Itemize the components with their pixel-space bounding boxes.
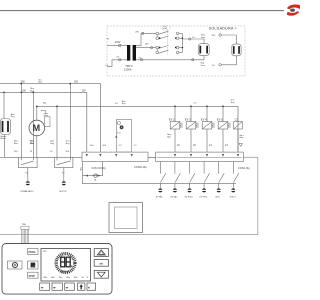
wire K1 to pump bbox=[27, 168, 29, 181]
svg-text:0V: 0V bbox=[139, 57, 142, 59]
wire K1 pin A bbox=[14, 84, 21, 158]
svg-text:2mm: 2mm bbox=[201, 65, 206, 67]
svg-text:Blan: Blan bbox=[30, 143, 34, 145]
node W3/motor bbox=[36, 106, 38, 108]
svg-text:M: M bbox=[33, 123, 41, 133]
solenoid EV2 bbox=[167, 106, 182, 152]
button warning bbox=[94, 249, 108, 257]
motor M1 bbox=[29, 120, 45, 136]
switch/ground column EV SOLD bbox=[185, 162, 195, 199]
node W2/K1a bbox=[20, 92, 22, 94]
svg-text:100: 100 bbox=[90, 145, 94, 147]
contactor left link wires bbox=[156, 35, 158, 51]
svg-text:70: 70 bbox=[50, 151, 53, 153]
svg-text:70: 70 bbox=[43, 102, 46, 105]
svg-text:2.0: 2.0 bbox=[193, 102, 197, 104]
wire W1 net 200 bbox=[0, 78, 100, 152]
node W3/K2a bbox=[56, 106, 58, 108]
solenoid EV5 bbox=[217, 106, 230, 152]
logo (red swoosh, cropped at right edge) bbox=[287, 4, 300, 15]
svg-text:◂▸: ◂▸ bbox=[41, 286, 45, 290]
bottom button 4 bbox=[78, 283, 85, 290]
svg-text:200: 200 bbox=[65, 151, 69, 153]
wire K1 pin B bbox=[30, 92, 34, 157]
svg-text:◂▸: ◂▸ bbox=[53, 286, 57, 290]
svg-text:P-0: P-0 bbox=[117, 132, 121, 134]
strip2 pin arrows bbox=[174, 154, 239, 157]
solenoid EV3 bbox=[185, 106, 198, 152]
svg-text:SIOC: SIOC bbox=[215, 197, 220, 199]
dashed enclosure (power section) bbox=[107, 26, 245, 76]
svg-text:Neg: Neg bbox=[38, 82, 41, 84]
svg-text:EV VAC: EV VAC bbox=[171, 196, 178, 199]
svg-text:14V: 14V bbox=[145, 43, 149, 45]
fuse feeder wires bbox=[81, 162, 83, 176]
node W3/EV2 bbox=[174, 106, 176, 108]
bottom button 2 bbox=[52, 283, 63, 290]
svg-text:Neg: Neg bbox=[50, 143, 53, 145]
svg-text:Blan: Blan bbox=[240, 137, 244, 139]
svg-text:Blan: Blan bbox=[14, 143, 18, 145]
svg-text:SOLD I: SOLD I bbox=[230, 197, 237, 199]
svg-text:100: 100 bbox=[14, 151, 18, 153]
svg-text:MOTOR: MOTOR bbox=[59, 191, 67, 193]
svg-text:PROG: PROG bbox=[29, 251, 36, 254]
common bus (bottom) bbox=[0, 156, 243, 158]
primary wire 0V bbox=[105, 57, 127, 68]
svg-text:CONN 14p: CONN 14p bbox=[134, 165, 147, 169]
svg-text:KT PROL: KT PROL bbox=[200, 197, 208, 199]
svg-text:BY PAC: BY PAC bbox=[156, 196, 163, 199]
svg-text:▸|: ▸| bbox=[88, 286, 91, 290]
ribbon wire to panel bbox=[243, 157, 257, 234]
svg-text:Blan: Blan bbox=[167, 136, 171, 138]
bus through strips bbox=[148, 156, 156, 158]
relay contact K2 bbox=[55, 157, 73, 167]
button OK bbox=[94, 260, 108, 267]
svg-text:Neg: Neg bbox=[66, 143, 69, 145]
svg-text:EV 5: EV 5 bbox=[217, 118, 223, 122]
panel bus line bbox=[0, 234, 258, 236]
motor run capacitor bbox=[41, 111, 50, 127]
svg-text:Neg: Neg bbox=[231, 102, 234, 104]
switch common bus bbox=[82, 176, 236, 184]
wire W3 net 70 bbox=[37, 99, 238, 153]
svg-text:V5: V5 bbox=[107, 39, 110, 41]
wire K2 pin A bbox=[50, 106, 57, 157]
relay contact K1 bbox=[18, 157, 37, 167]
svg-text:200: 200 bbox=[102, 145, 106, 147]
svg-text:STOP: STOP bbox=[29, 275, 36, 278]
svg-text:13: 13 bbox=[225, 144, 228, 147]
svg-text:14: 14 bbox=[209, 144, 212, 147]
switch/ground column EV VAC bbox=[171, 162, 181, 199]
wire module top bbox=[3, 92, 5, 118]
svg-text:16: 16 bbox=[177, 144, 180, 147]
vacuum pump symbol bbox=[21, 181, 35, 193]
svg-text:2.0: 2.0 bbox=[115, 103, 119, 105]
node W1/K2 bbox=[69, 83, 71, 85]
svg-text:EV 3: EV 3 bbox=[185, 118, 191, 122]
svg-text:Neg: Neg bbox=[11, 116, 14, 118]
svg-text:ok: ok bbox=[99, 262, 103, 266]
svg-text:EV 4: EV 4 bbox=[201, 118, 207, 122]
rectifier module D1 bbox=[198, 35, 209, 67]
label C3 (contactor title) bbox=[161, 25, 171, 30]
svg-text:C3: C3 bbox=[163, 26, 167, 30]
svg-text:BOMBA VACIO: BOMBA VACIO bbox=[21, 190, 35, 193]
button down bbox=[94, 270, 108, 278]
contactor output bus bbox=[179, 33, 183, 52]
bottom button 5 bbox=[87, 283, 96, 290]
svg-text:0V: 0V bbox=[117, 57, 120, 59]
contactor coil C3 bbox=[234, 118, 244, 153]
svg-text:2.1: 2.1 bbox=[134, 145, 138, 147]
wire W2 net 100 bbox=[0, 87, 87, 152]
wire motor top bbox=[36, 106, 38, 120]
svg-text:79: 79 bbox=[30, 151, 33, 153]
svg-text:15: 15 bbox=[193, 144, 196, 147]
button PROG bbox=[28, 248, 38, 254]
node W2/K1b bbox=[32, 92, 34, 94]
svg-text:C3: C3 bbox=[235, 118, 239, 122]
capacitor module X1 bbox=[0, 113, 15, 140]
button STOP bbox=[28, 272, 38, 278]
fuse F1 0.8(3A) bbox=[85, 167, 105, 181]
strip1 pin arrows bbox=[86, 154, 133, 157]
secondary tap 14V bbox=[136, 43, 156, 48]
seven segment digit 1 bbox=[61, 257, 65, 267]
decimal point bbox=[71, 266, 72, 267]
wire bus to rectifier bbox=[182, 37, 204, 40]
knob button bbox=[8, 261, 22, 269]
svg-text:◂▸: ◂▸ bbox=[65, 286, 69, 290]
svg-text:2.2: 2.2 bbox=[119, 145, 123, 147]
svg-text:29V: 29V bbox=[135, 32, 139, 34]
header rule bbox=[0, 10, 284, 12]
svg-text:230V: 230V bbox=[115, 41, 121, 44]
switch/ground column KT PROL bbox=[200, 162, 210, 199]
svg-text:29V: 29V bbox=[211, 35, 215, 37]
wire K2 pin B bbox=[65, 84, 70, 158]
svg-text:200: 200 bbox=[74, 80, 79, 83]
connector strip CONJ 6p bbox=[156, 152, 250, 170]
svg-text:EV SOLD: EV SOLD bbox=[185, 197, 194, 199]
svg-text:100: 100 bbox=[82, 90, 87, 93]
node W3/EV3 bbox=[190, 106, 192, 108]
node W3/EV4 bbox=[206, 106, 208, 108]
svg-text:CONJ (6p: CONJ (6p bbox=[238, 166, 250, 170]
switch/ground column SIOC bbox=[215, 162, 224, 199]
switch/ground column BY PAC bbox=[156, 162, 166, 199]
svg-text:1A: 1A bbox=[94, 179, 97, 182]
welding output module bbox=[211, 34, 241, 67]
svg-text:TRA: TRA bbox=[22, 223, 27, 226]
node W1/K1 bbox=[20, 83, 22, 85]
secondary tap 29V bbox=[135, 32, 156, 46]
solenoid EV4 bbox=[201, 106, 214, 152]
switch/ground column SOLD bbox=[230, 162, 239, 199]
svg-text:PUI: PUI bbox=[43, 251, 47, 253]
output bus junction dots bbox=[182, 37, 184, 48]
svg-text:0V: 0V bbox=[212, 65, 215, 67]
svg-text:100: 100 bbox=[22, 89, 27, 92]
control panel body bbox=[2, 244, 112, 295]
svg-text:Blanco: Blanco bbox=[0, 138, 6, 140]
LCD display bbox=[41, 249, 91, 282]
transformer TRP3 core bars bbox=[127, 45, 130, 61]
svg-text:TRP 3: TRP 3 bbox=[125, 64, 133, 68]
button mode icon bbox=[28, 261, 38, 269]
node W2/module bbox=[3, 92, 5, 94]
contactor terminal marks bbox=[159, 37, 177, 48]
node W3/EV5 bbox=[222, 106, 224, 108]
svg-text:888mm: 888mm bbox=[61, 272, 69, 274]
display window box bbox=[109, 203, 143, 233]
svg-text:Neg: Neg bbox=[80, 167, 82, 170]
wire module bottom bbox=[4, 135, 6, 158]
svg-text:2mm: 2mm bbox=[201, 37, 206, 39]
svg-text:EV 2: EV 2 bbox=[169, 118, 175, 122]
svg-text:SOLDADURA +: SOLDADURA + bbox=[209, 27, 238, 31]
seven segment digit 2 bbox=[66, 257, 70, 267]
connector strip CONN 14p bbox=[82, 152, 148, 169]
svg-text:120VA: 120VA bbox=[124, 68, 132, 72]
bottom button 1 bbox=[40, 283, 50, 290]
dial ring bbox=[56, 254, 75, 273]
secondary 0V bus bbox=[136, 57, 204, 61]
primary wire 230V bbox=[107, 39, 127, 47]
thermal protector KT box bbox=[115, 120, 131, 153]
svg-text:FUS 0.8(3A): FUS 0.8(3A) bbox=[92, 167, 106, 170]
contactor actuator dashed link bbox=[167, 30, 169, 55]
wire motor bottom bbox=[30, 136, 36, 158]
svg-text:K1: K1 bbox=[25, 172, 28, 174]
motor load symbol bbox=[59, 181, 67, 193]
contactor C3 contacts bbox=[156, 31, 179, 54]
svg-text:Neg: Neg bbox=[122, 103, 125, 105]
wire K2 to motor load bbox=[63, 168, 65, 181]
ribbon connector TRA bbox=[21, 223, 29, 243]
bottom button 3 bbox=[65, 283, 75, 290]
